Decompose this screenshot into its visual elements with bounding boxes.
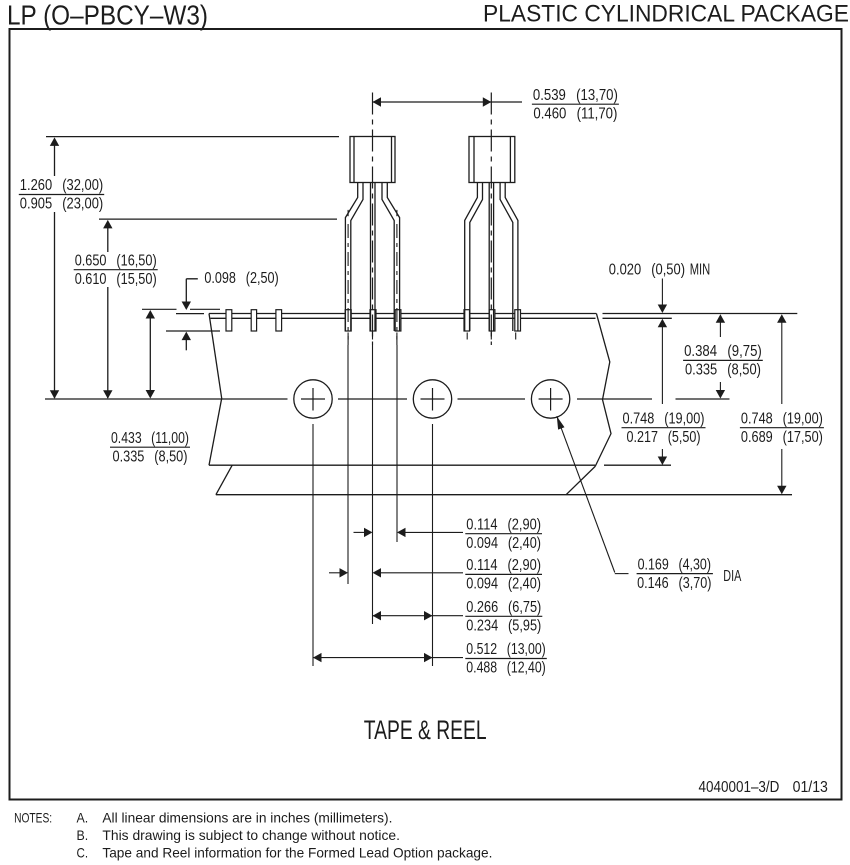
dimension 0.539/0.460 package pitch — [373, 87, 619, 123]
dimension row 0.114 lead spacing left — [329, 557, 542, 593]
dimension 0.098 staple height — [166, 270, 279, 350]
extension line below circle 2 — [432, 424, 434, 666]
svg-text:LP (O–PBCY–W3): LP (O–PBCY–W3) — [7, 0, 208, 31]
tape staple slots — [226, 310, 521, 331]
reference line body top — [46, 136, 339, 138]
svg-text:0.488 (12,40): 0.488 (12,40) — [466, 660, 546, 677]
svg-text:0.539 (13,70): 0.539 (13,70) — [533, 87, 618, 104]
svg-text:1.260 (32,00): 1.260 (32,00) — [20, 177, 103, 194]
package 2 centerline — [490, 93, 492, 346]
sprocket hole circle 1 — [294, 380, 332, 418]
svg-text:0.098 (2,50): 0.098 (2,50) — [204, 270, 278, 287]
svg-text:0.266 (6,75): 0.266 (6,75) — [466, 599, 541, 616]
package 2 left lead — [465, 183, 483, 332]
svg-text:C.: C. — [77, 845, 89, 861]
svg-text:0.114 (2,90): 0.114 (2,90) — [466, 516, 541, 533]
svg-text:0.433 (11,00): 0.433 (11,00) — [111, 430, 189, 447]
svg-text:DIA: DIA — [723, 568, 741, 585]
svg-text:0.094 (2,40): 0.094 (2,40) — [466, 576, 541, 593]
title PLASTIC CYLINDRICAL PACKAGE — [483, 1, 849, 28]
tape right break edge — [595, 313, 611, 466]
dimension row 0.512 hole pitch — [313, 641, 547, 677]
document number 4040001-3/D 01/13 — [699, 779, 828, 796]
package 1 right formed lead — [382, 183, 400, 346]
holes centerline — [45, 398, 730, 400]
dimension 0.020 MIN tape thickness — [609, 262, 710, 328]
dimension 1.260/0.905 — [19, 137, 104, 398]
svg-text:B.: B. — [77, 827, 89, 843]
notes block — [14, 810, 492, 861]
svg-text:0.460 (11,70): 0.460 (11,70) — [533, 105, 617, 122]
svg-text:0.384 (9,75): 0.384 (9,75) — [684, 343, 762, 360]
extension line below circle 1 — [312, 424, 314, 666]
svg-text:Tape and Reel information for: Tape and Reel information for the Formed… — [102, 845, 492, 861]
svg-text:0.020 (0,50): 0.020 (0,50) — [609, 262, 685, 279]
dimension row 0.114 lead spacing right — [354, 516, 543, 552]
svg-text:0.610 (15,50): 0.610 (15,50) — [75, 271, 157, 288]
svg-text:0.146 (3,70): 0.146 (3,70) — [637, 575, 711, 592]
svg-text:0.094 (2,40): 0.094 (2,40) — [466, 535, 541, 552]
dimension 0.650/0.610 — [74, 220, 158, 399]
svg-text:0.689 (17,50): 0.689 (17,50) — [741, 429, 823, 446]
svg-text:0.335 (8,50): 0.335 (8,50) — [685, 362, 761, 379]
caption TAPE & REEL — [364, 715, 487, 745]
svg-text:0.114 (2,90): 0.114 (2,90) — [466, 557, 541, 574]
package 2 center lead — [489, 183, 493, 332]
tape left break edge — [209, 314, 222, 466]
title LP (O-PBCY-W3) — [7, 0, 208, 31]
dimension 0.748/0.217 — [622, 327, 706, 465]
svg-text:4040001–3/D: 4040001–3/D — [699, 779, 780, 796]
package 1 centerline — [372, 93, 374, 346]
svg-text:0.748 (19,00): 0.748 (19,00) — [741, 410, 823, 427]
svg-text:A.: A. — [77, 810, 89, 826]
svg-text:PLASTIC CYLINDRICAL PACKAGE: PLASTIC CYLINDRICAL PACKAGE — [483, 1, 849, 28]
dimension 0.748/0.689 — [740, 314, 824, 494]
svg-text:TAPE & REEL: TAPE & REEL — [364, 715, 487, 745]
tape bottom edge — [209, 464, 671, 466]
dimension 0.433/0.335 — [110, 309, 220, 465]
dimension 0.384/0.335 — [683, 314, 763, 398]
extension lines below package 1 leads — [348, 345, 397, 624]
svg-text:0.234 (5,95): 0.234 (5,95) — [466, 618, 541, 635]
svg-text:0.169 (4,30): 0.169 (4,30) — [638, 556, 711, 573]
tape carrier top edge lines — [209, 314, 797, 319]
svg-text:NOTES:: NOTES: — [14, 810, 52, 826]
svg-text:0.748 (19,00): 0.748 (19,00) — [623, 410, 705, 427]
package 2 right lead — [500, 183, 518, 332]
package 1 body — [350, 137, 395, 183]
svg-text:0.335 (8,50): 0.335 (8,50) — [113, 448, 188, 465]
cover strip below tape — [216, 465, 792, 495]
reference line lead bend — [99, 218, 337, 220]
dimension row 0.266 center to hole — [373, 599, 543, 635]
package 2 body — [469, 137, 515, 183]
svg-text:This drawing is subject to cha: This drawing is subject to change withou… — [102, 827, 400, 843]
svg-text:0.512 (13,00): 0.512 (13,00) — [466, 641, 546, 658]
package 1 center lead — [371, 183, 376, 332]
svg-text:0.650 (16,50): 0.650 (16,50) — [75, 252, 157, 269]
sprocket hole circle 2 — [413, 380, 451, 418]
svg-text:0.905 (23,00): 0.905 (23,00) — [20, 196, 103, 213]
lead tip dashes below staples — [348, 333, 516, 340]
package 1 left formed lead — [345, 183, 363, 346]
svg-text:MIN: MIN — [690, 262, 711, 279]
leader and dimension 0.169/0.146 DIA hole diameter — [557, 416, 742, 592]
svg-text:All linear dimensions are in i: All linear dimensions are in inches (mil… — [102, 810, 392, 826]
svg-text:0.217 (5,50): 0.217 (5,50) — [627, 429, 701, 446]
svg-text:01/13: 01/13 — [793, 779, 828, 796]
sprocket hole circle 3 — [531, 380, 569, 418]
